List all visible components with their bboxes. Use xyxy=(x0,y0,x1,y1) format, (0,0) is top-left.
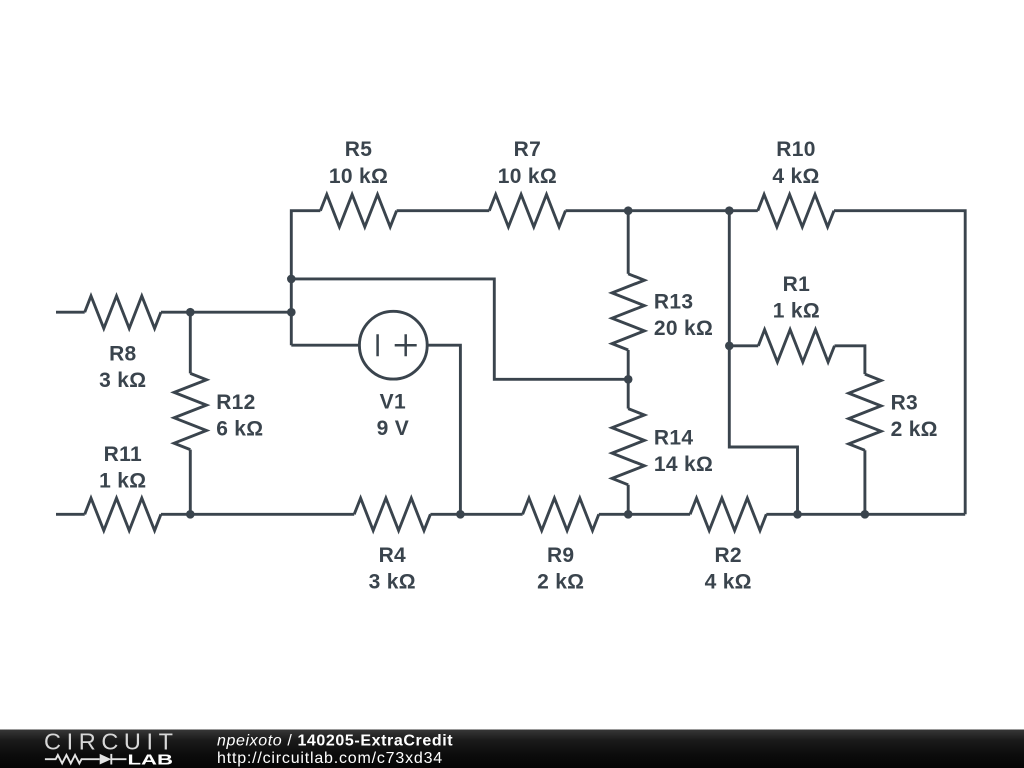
wire W1 V1+ up to top rail xyxy=(291,211,320,346)
svg-text:14 kΩ: 14 kΩ xyxy=(654,453,713,476)
svg-text:R9: R9 xyxy=(547,544,574,567)
svg-text:10 kΩ: 10 kΩ xyxy=(329,165,388,188)
svg-text:10 kΩ: 10 kΩ xyxy=(498,165,557,188)
resistor R11 xyxy=(85,443,161,530)
wire W14 V1 left lead xyxy=(291,344,359,347)
svg-text:4 kΩ: 4 kΩ xyxy=(772,165,819,188)
svg-text:4 kΩ: 4 kΩ xyxy=(705,571,752,594)
wire W23 R9 to R2 xyxy=(599,513,690,516)
resistor R7 xyxy=(489,138,565,227)
CircuitLab logo wordmark LAB xyxy=(128,751,174,768)
wire W13 R14 bottom lead xyxy=(627,485,630,515)
svg-text:9 V: 9 V xyxy=(377,417,409,440)
resistor R9 xyxy=(523,498,599,593)
CircuitLab logo resistor-diode symbol xyxy=(45,754,127,765)
wire W7 mid jog to R13 bottom xyxy=(291,279,628,379)
svg-text:R12: R12 xyxy=(216,391,255,414)
node N2 top R1-branch tap xyxy=(725,206,734,215)
wire W22 R4 to R9 xyxy=(430,513,522,516)
node N10 bottom R14 junction xyxy=(624,510,633,519)
svg-text:R4: R4 xyxy=(379,544,406,567)
svg-text:http://circuitlab.com/c73xd34: http://circuitlab.com/c73xd34 xyxy=(217,750,443,767)
wire W4 right rail xyxy=(834,211,965,515)
svg-text:6 kΩ: 6 kΩ xyxy=(216,417,263,440)
voltage source V1 xyxy=(359,311,427,440)
svg-text:R13: R13 xyxy=(654,291,693,314)
svg-text:npeixoto / 140205-ExtraCredit: npeixoto / 140205-ExtraCredit xyxy=(217,732,453,749)
resistor R1 xyxy=(758,273,834,362)
svg-text:20 kΩ: 20 kΩ xyxy=(654,317,713,340)
svg-text:2 kΩ: 2 kΩ xyxy=(537,571,584,594)
svg-text:V1: V1 xyxy=(380,391,406,414)
node N7 R1 left tap xyxy=(725,342,734,351)
resistor R10 xyxy=(758,138,834,227)
wire W21 R11 to R4 xyxy=(161,513,354,516)
CircuitLab logo wordmark CIRCUIT xyxy=(44,728,173,754)
resistor R8 xyxy=(85,296,161,392)
svg-text:R7: R7 xyxy=(514,138,541,161)
wire W8 R12 top lead xyxy=(189,312,192,373)
node N1 top R13 tap xyxy=(624,206,633,215)
svg-text:R11: R11 xyxy=(104,443,142,466)
node N12 bottom R3 junction xyxy=(861,510,870,519)
wire W19 R3 bottom lead xyxy=(863,450,866,514)
footer attribution line xyxy=(217,732,453,749)
wire W16 R1 branch from top rail xyxy=(729,211,797,515)
svg-text:LAB: LAB xyxy=(128,751,174,768)
wire W10 R13 top lead xyxy=(627,211,630,274)
svg-text:R3: R3 xyxy=(891,391,918,414)
wire W3 R7 to R10 xyxy=(566,209,758,212)
node N8 bottom R12 junction xyxy=(186,510,195,519)
node N4 left vertical / R8 xyxy=(287,308,296,317)
resistor R5 xyxy=(320,138,396,227)
resistor R12 xyxy=(174,373,263,449)
wire W24 R2 to right rail xyxy=(766,513,965,516)
svg-text:1 kΩ: 1 kΩ xyxy=(773,300,820,323)
wire W17 R1 left lead xyxy=(729,344,758,347)
resistor R13 xyxy=(612,274,713,350)
resistor R2 xyxy=(690,498,766,593)
svg-text:1 kΩ: 1 kΩ xyxy=(99,470,146,493)
svg-text:R8: R8 xyxy=(109,342,136,365)
resistor R4 xyxy=(354,498,430,593)
svg-text:R5: R5 xyxy=(345,138,372,161)
wire W2 R5 to R7 xyxy=(397,209,490,212)
node N6 R13/R14/mid-wire junction xyxy=(624,375,633,384)
wire W18 R1 to R3 corner xyxy=(835,346,865,374)
svg-text:R2: R2 xyxy=(714,544,741,567)
svg-text:2 kΩ: 2 kΩ xyxy=(891,418,938,441)
resistor R3 xyxy=(849,374,938,450)
footer bar background xyxy=(0,730,1024,768)
resistor R14 xyxy=(612,409,713,485)
svg-text:3 kΩ: 3 kΩ xyxy=(99,369,146,392)
wire W12 R14 top lead xyxy=(627,379,630,408)
svg-text:R14: R14 xyxy=(654,426,693,449)
wire W5 R8 open lead xyxy=(56,311,85,314)
footer url line xyxy=(217,750,443,767)
wire W11 R13 bottom lead xyxy=(627,350,630,379)
node N9 bottom V1- junction xyxy=(456,510,465,519)
wire W15 V1 right lead down to bottom rail xyxy=(427,345,460,514)
wire W9 R12 bottom lead xyxy=(189,450,192,515)
node N3 left vertical / mid wire xyxy=(287,275,296,284)
wire W6 R8 to left vertical xyxy=(161,311,291,314)
node N5 R8/R12 junction xyxy=(186,308,195,317)
svg-text:3 kΩ: 3 kΩ xyxy=(369,571,416,594)
node N11 bottom R1-branch junction xyxy=(793,510,802,519)
svg-text:R1: R1 xyxy=(783,273,810,296)
svg-text:R10: R10 xyxy=(776,138,815,161)
wire W20 R11 open lead xyxy=(56,513,85,516)
